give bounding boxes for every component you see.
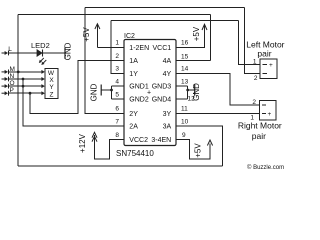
svg-text:15: 15 <box>181 54 189 61</box>
svg-text:© Buzzle.com: © Buzzle.com <box>247 164 284 171</box>
svg-text:1: 1 <box>115 40 119 47</box>
svg-text:SN754410: SN754410 <box>116 149 154 158</box>
wire pin10 3A drop <box>176 126 223 166</box>
svg-text:10: 10 <box>181 118 189 125</box>
connector W X Y Z box <box>45 69 58 99</box>
ground symbol IC left <box>100 85 102 96</box>
LED2 diode <box>37 50 43 57</box>
wire pin11 3Y to right motor pin1 <box>176 112 260 114</box>
svg-text:GND3: GND3 <box>152 84 172 91</box>
svg-text:P: P <box>10 87 14 94</box>
svg-text:3A: 3A <box>163 124 172 131</box>
svg-text:+: + <box>268 111 272 118</box>
wire bottom rail <box>18 165 222 167</box>
junction dot M row <box>17 71 20 74</box>
svg-text:IC2: IC2 <box>124 33 135 40</box>
svg-text:N: N <box>10 73 15 80</box>
input arrow L <box>2 51 9 56</box>
wire top rail L3 <box>111 20 239 22</box>
wire left motor pin1 dash <box>263 64 267 66</box>
wire GND right tie <box>187 86 189 99</box>
svg-text:11: 11 <box>181 106 188 113</box>
svg-text:1Y: 1Y <box>129 71 138 78</box>
ground symbol LED <box>64 48 66 59</box>
svg-text:GND1: GND1 <box>129 84 149 91</box>
input arrow N <box>2 77 9 82</box>
svg-text:4Y: 4Y <box>163 71 172 78</box>
wire LED cathode to GND <box>43 52 66 54</box>
svg-text:L: L <box>8 46 12 53</box>
wire pin1 +5V arrow shaft <box>96 25 98 48</box>
input arrow P <box>2 91 9 96</box>
svg-text:+5V: +5V <box>82 27 91 42</box>
svg-text:O: O <box>10 80 15 87</box>
wire M input row <box>9 71 45 73</box>
svg-text:GND2: GND2 <box>129 97 149 104</box>
wire GND left stub pin4 <box>112 85 125 87</box>
junction dot N row <box>22 78 25 81</box>
wire pin3 1Y feed <box>111 21 125 74</box>
svg-text:2Y: 2Y <box>129 111 138 118</box>
svg-text:2A: 2A <box>129 124 138 131</box>
wire GND right stub pin13 <box>176 85 188 87</box>
svg-text:VCC2: VCC2 <box>129 137 148 144</box>
svg-text:GND: GND <box>64 42 73 60</box>
svg-text:1: 1 <box>253 59 257 66</box>
wire pin9 3-4EN to +5V <box>176 140 210 159</box>
svg-text:+12V: +12V <box>78 133 87 153</box>
svg-text:4A: 4A <box>163 58 172 65</box>
wire left bus drop <box>17 15 19 167</box>
svg-text:W: W <box>48 70 55 77</box>
wire 2Y feed: L1 left drop to pin 6 <box>85 8 125 114</box>
connector J1 left motor box <box>260 59 277 79</box>
input arrow O <box>2 84 9 89</box>
junction dot O row <box>22 85 25 88</box>
svg-text:Y: Y <box>49 84 54 91</box>
svg-text:GND4: GND4 <box>152 97 172 104</box>
svg-text:X: X <box>49 77 54 84</box>
wire pin8 VCC2 to +12V <box>95 135 125 159</box>
wire GND left stub pin5 <box>112 98 125 100</box>
svg-text:13: 13 <box>181 78 189 85</box>
svg-text:7: 7 <box>115 118 119 125</box>
svg-text:Right Motor: Right Motor <box>238 121 282 131</box>
wire top rail L1 <box>85 7 245 9</box>
LED2 light arrows <box>40 58 47 64</box>
svg-text:+: + <box>269 62 273 69</box>
svg-text:9: 9 <box>182 132 186 139</box>
wire right motor pin1 dash <box>262 112 266 114</box>
svg-text:3Y: 3Y <box>163 111 172 118</box>
wire GND left lead <box>101 89 111 91</box>
svg-text:2: 2 <box>115 53 119 60</box>
wire pin1 1-2EN to +5V <box>97 46 124 48</box>
junction dot P row <box>29 92 32 95</box>
svg-text:1-2EN: 1-2EN <box>129 45 149 52</box>
svg-text:pair: pair <box>257 49 271 59</box>
junction dot GND left <box>110 89 113 92</box>
connector J2 right motor box <box>260 101 277 121</box>
svg-text:5: 5 <box>115 91 119 98</box>
svg-text:GND: GND <box>89 83 98 101</box>
connector entry arrow W <box>41 70 44 74</box>
power +5V left arrow <box>95 24 100 29</box>
input arrow M <box>2 70 9 75</box>
svg-text:2: 2 <box>254 75 258 82</box>
wire GND left tie <box>111 86 113 99</box>
svg-text:GND: GND <box>192 83 201 101</box>
wire O input row <box>9 85 45 87</box>
svg-text:1A: 1A <box>129 58 138 65</box>
svg-text:pair: pair <box>252 131 266 141</box>
connector entry arrow Z <box>41 91 44 95</box>
power +12V double arrow <box>92 132 97 141</box>
svg-text:6: 6 <box>115 106 119 113</box>
wire N input row <box>9 78 45 80</box>
IC U1 body SN754410 <box>124 40 176 146</box>
connector entry arrow X <box>41 77 44 81</box>
svg-text:+: + <box>147 90 151 97</box>
wire P input to pin2 1A <box>30 61 125 114</box>
power +5V right arrow <box>202 24 207 30</box>
wire left motor pin2 feed: L1 right drop <box>245 8 261 74</box>
wire L2 right drop to pin15 <box>210 15 212 61</box>
wire P input row <box>9 92 45 94</box>
wire pin15 4A <box>176 60 211 62</box>
svg-text:Z: Z <box>50 91 54 98</box>
wire right motor pin2 dash <box>262 104 266 106</box>
svg-text:+5V: +5V <box>194 143 203 158</box>
wire pin14 4Y to right motor pin2 <box>176 73 260 105</box>
svg-text:4: 4 <box>115 78 119 85</box>
svg-text:14: 14 <box>181 66 189 73</box>
wire L input row <box>9 52 38 54</box>
svg-text:LED2: LED2 <box>31 41 50 50</box>
svg-text:16: 16 <box>181 40 189 47</box>
svg-text:3: 3 <box>115 66 119 73</box>
svg-text:2: 2 <box>252 99 256 106</box>
wire top rail L2 <box>18 14 210 16</box>
power +5V bottom arrow <box>207 140 212 146</box>
svg-text:VCC1: VCC1 <box>153 45 172 52</box>
wire GND right stub pin12 <box>176 98 188 100</box>
svg-text:M: M <box>10 66 15 73</box>
wire left motor pin1 feed: L3 right drop <box>239 21 261 65</box>
wire GND right lead <box>188 89 195 91</box>
wire left motor pin2 dash <box>263 73 267 75</box>
connector entry arrow Y <box>41 84 44 88</box>
svg-text:+5V: +5V <box>192 26 201 41</box>
svg-text:8: 8 <box>115 132 119 139</box>
wire pin16 VCC1 to +5V <box>176 25 205 48</box>
junction dot GND right <box>186 89 189 92</box>
svg-text:3-4EN: 3-4EN <box>151 137 171 144</box>
wire N input to pin7 2A <box>23 79 125 126</box>
ground symbol IC right <box>194 85 196 96</box>
